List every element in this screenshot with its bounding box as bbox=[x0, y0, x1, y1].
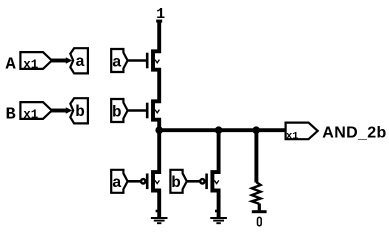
svg-text:a: a bbox=[112, 174, 122, 192]
transistor P2 gate tag b bbox=[170, 170, 186, 193]
wire to resistor bbox=[254, 130, 258, 182]
svg-text:A: A bbox=[6, 56, 17, 75]
transistor N2 arrow chevron bbox=[155, 110, 159, 113]
transistor N1 arrow chevron bbox=[155, 60, 159, 63]
svg-text:b: b bbox=[171, 174, 181, 192]
transistor N1 gate tag a bbox=[111, 49, 127, 72]
transistor P1 gate wire bbox=[128, 180, 141, 183]
transistor P1 arrow chevron bbox=[155, 180, 159, 183]
power bar bbox=[156, 20, 162, 23]
svg-text:a: a bbox=[75, 53, 85, 71]
transistor P1 gate bubble bbox=[141, 179, 145, 183]
output bus wire bbox=[159, 128, 286, 132]
junction node 1 bbox=[155, 126, 163, 134]
off-page tag b (input side) bbox=[70, 98, 88, 123]
ground symbol 1 bbox=[151, 218, 168, 223]
wire A pennant to a tag bbox=[51, 59, 67, 63]
svg-text:b: b bbox=[112, 103, 122, 121]
wire B pennant to b tag bbox=[51, 109, 67, 113]
export pin A (x1 pennant) bbox=[20, 52, 51, 69]
svg-text:x1: x1 bbox=[286, 130, 299, 142]
export pin B (x1 pennant) bbox=[20, 102, 51, 119]
arrowhead on wire A bbox=[66, 57, 72, 63]
transistor P2 gate bubble bbox=[200, 179, 204, 183]
transistor P2 gate wire bbox=[187, 180, 200, 183]
junction node 2 bbox=[215, 126, 223, 134]
transistor N2 gate wire bbox=[128, 109, 149, 112]
svg-text:a: a bbox=[112, 53, 122, 71]
transistor N2 gate tag b bbox=[111, 99, 127, 122]
transistor P1 gate tag a bbox=[111, 170, 127, 193]
svg-text:x1: x1 bbox=[23, 108, 38, 122]
wire chain: VDD through N1,N2 to output node, down through P1 to ground bbox=[153, 22, 159, 218]
svg-text:AND_2b: AND_2b bbox=[322, 125, 386, 142]
ground 1 pin nub bbox=[156, 210, 158, 213]
ground symbol 2 bbox=[210, 218, 227, 223]
transistor N2 gate plate bbox=[146, 103, 149, 119]
ground bar 0 bbox=[252, 210, 267, 213]
svg-text:B: B bbox=[6, 105, 16, 124]
transistor P2 drain/source path bbox=[212, 130, 218, 217]
transistor N1 gate plate bbox=[146, 53, 149, 69]
ground 2 pin nub bbox=[215, 210, 217, 213]
off-page tag a (input side) bbox=[70, 48, 88, 73]
transistor N1 gate wire bbox=[128, 59, 149, 62]
svg-text:x1: x1 bbox=[23, 58, 38, 72]
transistor P2 arrow chevron bbox=[214, 180, 218, 183]
output export pin x1 pennant bbox=[286, 123, 318, 140]
resistor bottom stub bbox=[258, 204, 261, 211]
arrowhead on wire B bbox=[66, 107, 72, 113]
resistor R (pulldown) bbox=[252, 182, 261, 204]
junction node 3 bbox=[252, 126, 260, 134]
transistor P2 gate plate bbox=[205, 174, 208, 190]
transistor P1 gate plate bbox=[146, 174, 149, 190]
ground net 0 label bbox=[258, 217, 262, 225]
svg-text:b: b bbox=[75, 103, 85, 121]
